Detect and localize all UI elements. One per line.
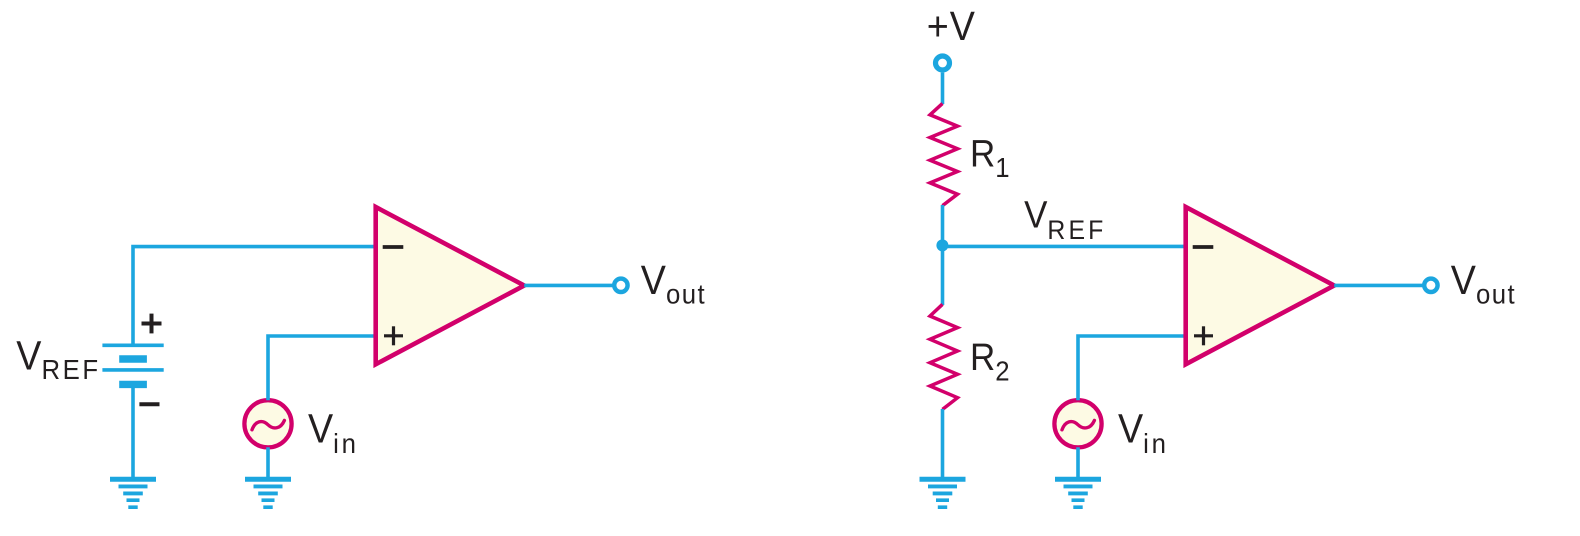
wire: [266, 447, 270, 479]
wire: [131, 384, 135, 479]
svg-text:R2: R2: [970, 336, 1010, 387]
source Vin: [1054, 400, 1101, 447]
wire: [268, 336, 377, 400]
wire: [133, 247, 377, 346]
svg-text:R1: R1: [970, 132, 1010, 183]
output terminal: [1424, 279, 1437, 292]
svg-text:Vout: Vout: [641, 257, 706, 309]
output terminal: [614, 279, 627, 292]
wire: [941, 205, 945, 246]
wire: [524, 284, 613, 288]
battery VREF: [102, 345, 163, 384]
svg-text:Vin: Vin: [308, 406, 359, 459]
svg-text:VREF: VREF: [16, 333, 100, 385]
supply terminal: [936, 56, 950, 70]
ground: [920, 479, 966, 507]
ground: [245, 479, 291, 507]
svg-text:Vin: Vin: [1118, 406, 1169, 459]
node VREF junction: [936, 239, 948, 251]
svg-text:+V: +V: [927, 4, 976, 50]
wire: [943, 245, 1188, 249]
wire: [941, 409, 945, 479]
resistor R2: [930, 304, 958, 409]
svg-text:VREF: VREF: [1024, 193, 1106, 245]
op-amp U1: [376, 207, 525, 364]
op-amp U1 plus input label: [384, 326, 403, 345]
svg-text:Vout: Vout: [1451, 257, 1516, 309]
op-amp U1 minus input label: [383, 245, 404, 249]
source Vin: [244, 400, 291, 447]
wire: [941, 245, 945, 305]
wire: [1078, 336, 1187, 400]
ground: [1055, 479, 1101, 507]
wire: [1334, 284, 1423, 288]
wire: [1076, 447, 1080, 479]
op-amp U2 minus input label: [1193, 245, 1214, 249]
op-amp U2: [1186, 207, 1335, 364]
ground: [110, 479, 156, 507]
resistor R1: [930, 103, 958, 205]
op-amp U2 plus input label: [1194, 326, 1213, 345]
battery plus label: [142, 314, 162, 334]
battery minus label: [139, 402, 159, 406]
wire: [941, 73, 945, 104]
